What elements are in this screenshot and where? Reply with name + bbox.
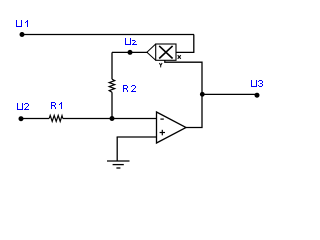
wire ground stem bbox=[116, 137, 118, 161]
resistor R2 zigzag bbox=[109, 79, 115, 92]
wire R1 to opamp inverting input bbox=[63, 118, 157, 120]
wire x pin horizontal into multiplier bbox=[176, 51, 194, 53]
wire vertical down to x pin bbox=[193, 35, 195, 53]
node U1 label bbox=[16, 20, 28, 27]
resistor R2 label bbox=[123, 85, 136, 92]
node U3 junction dot bbox=[255, 93, 260, 98]
wire U1 to multiplier x loop (top horizontal) bbox=[22, 34, 194, 36]
multiplier U2 label bbox=[125, 38, 137, 45]
wire R2 vertical upper segment bbox=[111, 52, 113, 79]
multiplier pin label x bbox=[178, 55, 181, 58]
op-amp body bbox=[157, 112, 187, 143]
node U2 label (input) bbox=[17, 103, 29, 110]
op-amp plus sign bbox=[160, 130, 165, 136]
wire R2 vertical lower segment bbox=[111, 92, 113, 118]
wire output to U3 bbox=[202, 93, 257, 95]
resistor R1 label bbox=[51, 102, 62, 109]
multiplier pin label y bbox=[159, 63, 162, 67]
resistor R1 zigzag bbox=[49, 115, 63, 121]
junction dot output node bbox=[200, 92, 205, 97]
junction dot R1/R2/opamp bbox=[110, 116, 115, 121]
wire U2 to R1 bbox=[21, 118, 49, 120]
ground symbol bbox=[107, 161, 130, 168]
wire multiplier output to R2 top bbox=[112, 51, 148, 53]
op-amp minus sign bbox=[160, 118, 163, 120]
wire opamp output bbox=[186, 94, 202, 127]
wire opamp noninverting input bbox=[117, 136, 157, 138]
node U1 junction dot bbox=[20, 32, 25, 37]
multiplier U2 body bbox=[147, 44, 176, 60]
multiplier output node dot bbox=[128, 50, 133, 55]
wire y pin down from multiplier bbox=[165, 60, 202, 94]
node U3 label bbox=[251, 80, 263, 87]
node U2 junction dot bbox=[19, 116, 24, 121]
